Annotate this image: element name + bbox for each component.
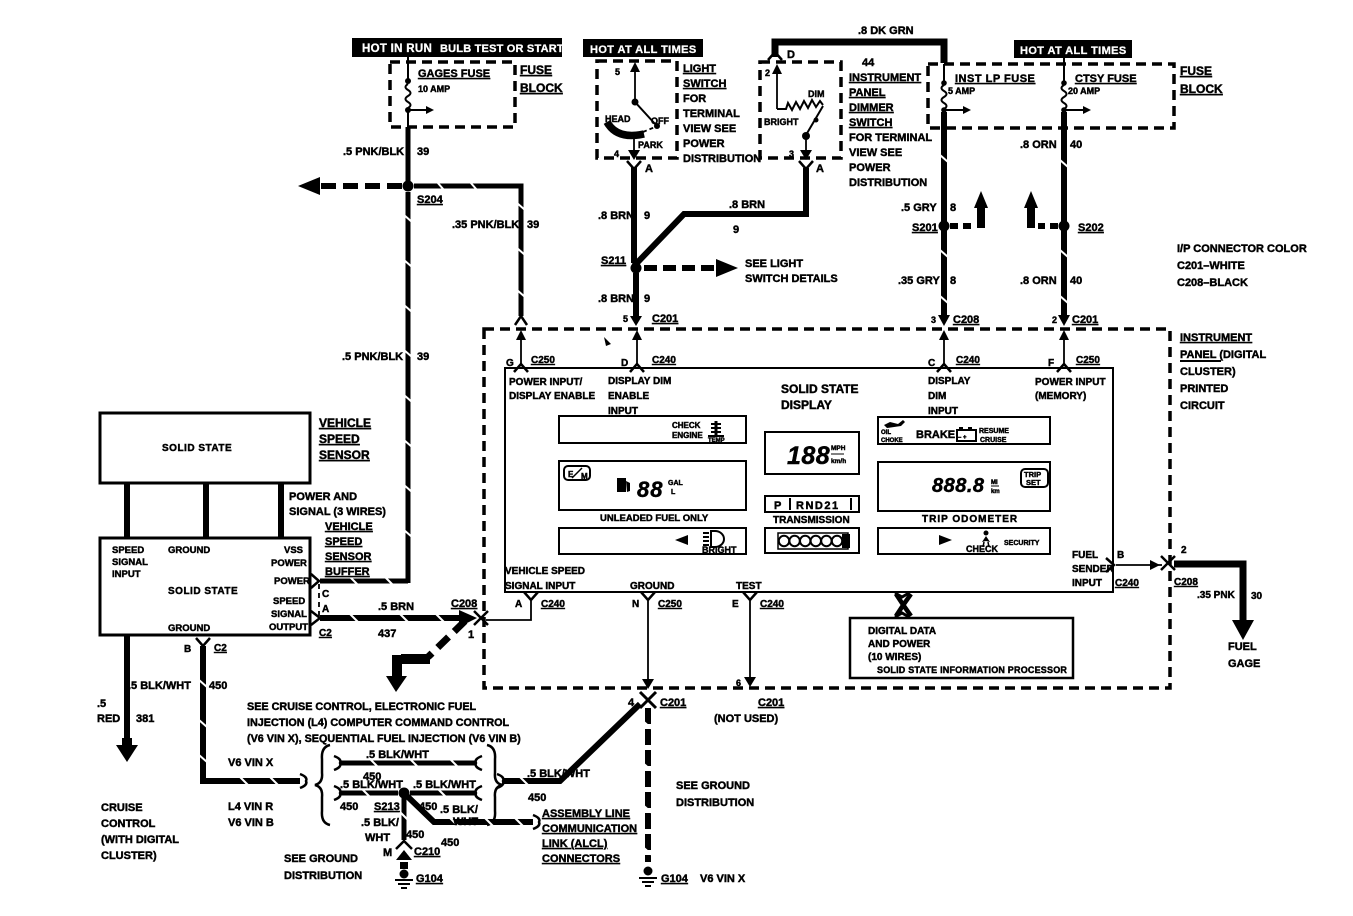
svg-text:FUEL: FUEL <box>1228 641 1257 653</box>
label VEHICLE SPEED SIGNAL INPUT <box>505 566 585 592</box>
svg-text:S204: S204 <box>417 194 444 206</box>
label TEST + terminal E C240 <box>732 581 784 610</box>
svg-text:9: 9 <box>644 210 650 222</box>
svg-text:.5 BLK/WHT: .5 BLK/WHT <box>366 749 429 761</box>
label LIGHT SWITCH FOR TERMINAL VIEW SEE POWER DISTRIBUTION <box>683 63 761 165</box>
svg-text:39: 39 <box>417 146 429 158</box>
terminal A (speed signal output) of buffer <box>311 604 332 639</box>
svg-text:GROUND: GROUND <box>168 545 210 556</box>
svg-text:.35 PNK: .35 PNK <box>1197 590 1236 601</box>
svg-text:9: 9 <box>733 224 739 236</box>
svg-text:DISTRIBUTION: DISTRIBUTION <box>849 177 927 189</box>
svg-text:RED: RED <box>97 713 120 725</box>
svg-text:C201: C201 <box>660 697 686 709</box>
svg-text:CRUISE: CRUISE <box>980 437 1007 444</box>
svg-text:POWER: POWER <box>274 576 310 587</box>
svg-text:BRIGHT: BRIGHT <box>702 545 737 555</box>
light switch internals <box>605 62 669 160</box>
svg-text:V6 VIN X: V6 VIN X <box>228 757 274 769</box>
svg-text:.8 ORN: .8 ORN <box>1020 139 1057 151</box>
splice S201 with arrow stub <box>912 191 988 234</box>
svg-text:PANEL (DIGITAL: PANEL (DIGITAL <box>1180 349 1266 361</box>
wire .5 BLK/WHT 450 (middle left of bundle) <box>334 779 403 813</box>
display cell bright with headlamp icon <box>559 528 746 555</box>
svg-text:C240: C240 <box>652 355 676 366</box>
svg-text:8: 8 <box>950 275 956 287</box>
svg-text:DIM: DIM <box>928 391 946 402</box>
svg-text:40: 40 <box>1070 139 1082 151</box>
svg-text:VEHICLE SPEED: VEHICLE SPEED <box>505 566 585 577</box>
svg-text:.5 BLK/: .5 BLK/ <box>440 804 478 816</box>
svg-text:39: 39 <box>417 351 429 363</box>
svg-text:LINK (ALCL): LINK (ALCL) <box>542 838 608 850</box>
svg-text:DISTRIBUTION: DISTRIBUTION <box>683 153 761 165</box>
svg-text:S213: S213 <box>374 801 400 813</box>
note SEE GROUND DISTRIBUTION (left) <box>284 853 362 882</box>
wire .8 BRN 9 (S211 to dimmer switch A) <box>634 168 806 266</box>
svg-text:C208: C208 <box>1174 577 1198 588</box>
label FUEL SENDER INPUT + terminal B C240 <box>1072 550 1139 589</box>
light switch dashed box <box>597 61 677 158</box>
svg-text:188: 188 <box>787 442 830 470</box>
svg-text:D: D <box>787 49 795 61</box>
svg-text:9: 9 <box>644 293 650 305</box>
wire fuel sender B to panel edge <box>1116 560 1162 570</box>
svg-text:.5 BLK/WHT: .5 BLK/WHT <box>527 768 590 780</box>
svg-text:SEE GROUND: SEE GROUND <box>284 853 358 865</box>
svg-text:V6 VIN B: V6 VIN B <box>228 817 274 829</box>
svg-text:ENGINE: ENGINE <box>672 431 703 440</box>
svg-text:DISTRIBUTION: DISTRIBUTION <box>676 797 754 809</box>
terminal 2 C201 <box>1052 314 1098 326</box>
svg-text:POWER: POWER <box>271 558 307 569</box>
label CRUISE CONTROL (WITH DIGITAL CLUSTER) <box>101 802 179 862</box>
wire .5 GRY 8 / .35 GRY 8 (INST LP fuse down to C208 pin 3) <box>898 112 956 316</box>
node 2 C208 on panel right edge <box>1161 545 1198 588</box>
terminal D of dimmer switch <box>768 49 795 61</box>
svg-text:SIGNAL (3 WIRES): SIGNAL (3 WIRES) <box>289 506 386 518</box>
svg-text:L4 VIN R: L4 VIN R <box>228 801 273 813</box>
svg-text:C201: C201 <box>652 313 678 325</box>
svg-text:C201: C201 <box>758 697 784 709</box>
display cell OIL/CHOKE BRAKE battery RESUME/CRUISE <box>878 417 1050 444</box>
svg-text:OIL: OIL <box>881 430 891 436</box>
svg-text:TRIP ODOMETER: TRIP ODOMETER <box>922 514 1018 525</box>
label POWER INPUT/DISPLAY ENABLE <box>509 377 595 402</box>
wire .5 RED 381 (buffer to cruise control) <box>97 635 154 762</box>
vehicle speed sensor box <box>100 413 310 483</box>
svg-text:BUFFER: BUFFER <box>325 566 370 578</box>
note I/P CONNECTOR COLOR <box>1177 243 1307 289</box>
svg-text:C208–BLACK: C208–BLACK <box>1177 277 1248 289</box>
svg-text:B: B <box>1117 550 1124 561</box>
svg-text:4: 4 <box>628 697 635 709</box>
svg-text:(V6 VIN X), SEQUENTIAL FUEL IN: (V6 VIN X), SEQUENTIAL FUEL INJECTION (V… <box>247 733 521 745</box>
svg-text:450: 450 <box>528 792 546 804</box>
svg-text:SECURITY: SECURITY <box>1004 540 1040 547</box>
svg-text:INJECTION (L4) COMPUTER COMMAN: INJECTION (L4) COMPUTER COMMAND CONTROL <box>247 717 510 729</box>
svg-text:SOLID STATE: SOLID STATE <box>781 382 859 396</box>
instrument panel (digital cluster) printed circuit dashed box <box>484 329 1170 688</box>
svg-text:HOT AT ALL TIMES: HOT AT ALL TIMES <box>1020 45 1127 57</box>
svg-text:FUEL: FUEL <box>1072 550 1098 561</box>
svg-text:C210: C210 <box>414 846 440 858</box>
svg-text:C250: C250 <box>1076 355 1100 366</box>
svg-text:C2: C2 <box>319 628 332 639</box>
node 6 C201 (NOT USED) <box>714 697 784 725</box>
wire ground N to C201 pin 4 <box>642 601 654 689</box>
svg-text:L: L <box>671 489 676 496</box>
svg-text:.8 BRN: .8 BRN <box>598 293 634 305</box>
svg-text:S201: S201 <box>912 222 938 234</box>
svg-text:INSTRUMENT: INSTRUMENT <box>1180 332 1252 344</box>
banner HOT AT ALL TIMES (light switch) <box>583 39 703 57</box>
svg-text:P: P <box>774 500 781 512</box>
wire .5 PNK/BLK 39 (S204 down to VSS buffer POWER) <box>320 192 429 585</box>
wire dashed arrow right from S211 (SEE LIGHT SWITCH DETAILS) <box>644 258 838 285</box>
svg-text:POWER INPUT: POWER INPUT <box>1035 377 1106 388</box>
svg-text:381: 381 <box>136 713 154 725</box>
svg-text:BLOCK: BLOCK <box>1180 82 1223 96</box>
svg-text:TEMP: TEMP <box>708 438 725 444</box>
svg-text:INSTRUMENT: INSTRUMENT <box>849 72 921 84</box>
svg-text:C201–WHITE: C201–WHITE <box>1177 260 1245 272</box>
svg-text:RESUME: RESUME <box>979 428 1009 435</box>
svg-text:INPUT: INPUT <box>1072 578 1102 589</box>
svg-text:PARK: PARK <box>638 140 663 150</box>
label FUEL GAGE <box>1228 641 1260 670</box>
svg-text:DISPLAY: DISPLAY <box>781 398 832 412</box>
wire .5 BLK/WHT 450 (middle right of bundle) <box>410 779 482 813</box>
wire dashed arrow left from S204 <box>298 177 402 195</box>
display cell trip odometer 888.8 TRIP SET <box>878 462 1050 511</box>
dimmer switch internals <box>764 64 825 160</box>
svg-text:CTSY FUSE: CTSY FUSE <box>1075 73 1137 85</box>
ground G104 (left) <box>395 862 444 888</box>
svg-text:.8 ORN: .8 ORN <box>1020 275 1057 287</box>
svg-text:VEHICLE: VEHICLE <box>325 521 373 533</box>
svg-text:3: 3 <box>789 149 794 159</box>
svg-text:S211: S211 <box>601 255 626 267</box>
svg-text:C240: C240 <box>1115 578 1139 589</box>
svg-text:4: 4 <box>614 149 619 159</box>
label VEHICLE SPEED SENSOR <box>319 416 371 462</box>
svg-text:VIEW SEE: VIEW SEE <box>849 147 902 159</box>
label SOLID STATE DISPLAY <box>781 382 859 412</box>
svg-text:GROUND: GROUND <box>630 581 674 592</box>
svg-text:DISTRIBUTION: DISTRIBUTION <box>284 870 362 882</box>
wire .8 BRN 9 (S211 down to C201 pin 5) <box>598 273 678 326</box>
svg-text:DIMMER: DIMMER <box>849 102 894 114</box>
wire test E to C201 pin 6 <box>736 601 756 688</box>
svg-text:SEE GROUND: SEE GROUND <box>676 780 750 792</box>
svg-text:VIEW SEE: VIEW SEE <box>683 123 736 135</box>
svg-text:HOT AT ALL TIMES: HOT AT ALL TIMES <box>590 44 697 56</box>
wire arrow up to pin 2 C201 inside panel <box>1059 330 1069 366</box>
svg-text:40: 40 <box>1070 275 1082 287</box>
svg-text:C240: C240 <box>760 599 784 610</box>
svg-text:SOLID STATE: SOLID STATE <box>168 586 238 597</box>
label VEHICLE SPEED SENSOR BUFFER <box>325 521 373 578</box>
display cell transmission P RND21 <box>765 496 859 512</box>
svg-text:INPUT: INPUT <box>928 406 958 417</box>
wire .5 BRN 437 (buffer A to panel node 1 C208) <box>320 598 477 641</box>
svg-text:DISPLAY DIM: DISPLAY DIM <box>608 376 671 387</box>
svg-text:.5 PNK/BLK: .5 PNK/BLK <box>342 351 403 363</box>
svg-text:10 AMP: 10 AMP <box>418 84 450 94</box>
svg-text:GROUND: GROUND <box>168 623 210 634</box>
svg-text:(NOT USED): (NOT USED) <box>714 713 779 725</box>
svg-text:CONTROL: CONTROL <box>101 818 156 830</box>
wire .35 PNK 30 to fuel gage <box>1174 564 1263 640</box>
svg-text:G104: G104 <box>416 873 444 885</box>
svg-text:AND POWER: AND POWER <box>868 639 931 650</box>
wire arrow up to pin 3 C208 inside panel <box>939 330 949 366</box>
svg-text:.5 BRN: .5 BRN <box>378 601 414 613</box>
svg-text:2: 2 <box>1052 315 1057 325</box>
svg-text:CHECK: CHECK <box>966 544 999 554</box>
svg-text:POWER INPUT/: POWER INPUT/ <box>509 377 583 388</box>
label ASSEMBLY LINE COMMUNICATION LINK (ALCL) CONNECTORS <box>542 808 637 865</box>
svg-text:.35 PNK/BLK: .35 PNK/BLK <box>452 219 519 231</box>
wire (ground distribution) C201 pin 4 down to G104 <box>644 708 652 862</box>
svg-text:5 AMP: 5 AMP <box>948 86 975 96</box>
svg-text:.8 DK GRN: .8 DK GRN <box>858 25 914 37</box>
svg-text:FOR TERMINAL: FOR TERMINAL <box>849 132 932 144</box>
svg-text:CONNECTORS: CONNECTORS <box>542 853 620 865</box>
wire arrow up to pin 5 inside panel <box>632 330 642 366</box>
svg-text:I/P CONNECTOR COLOR: I/P CONNECTOR COLOR <box>1177 243 1307 255</box>
wire .5 BLK/WHT 450 (top of bundle) <box>334 749 482 783</box>
svg-text:ASSEMBLY LINE: ASSEMBLY LINE <box>542 808 630 820</box>
svg-text:A: A <box>645 163 653 175</box>
svg-text:CLUSTER): CLUSTER) <box>101 850 157 862</box>
svg-text:450: 450 <box>406 829 424 841</box>
svg-text:WHT: WHT <box>365 832 390 844</box>
svg-text:SIGNAL: SIGNAL <box>271 609 307 620</box>
svg-text:BRIGHT: BRIGHT <box>764 117 799 127</box>
svg-text:(10 WIRES): (10 WIRES) <box>868 652 921 663</box>
svg-text:.8 BRN: .8 BRN <box>598 210 634 222</box>
svg-text:POWER: POWER <box>683 138 725 150</box>
node 4 C201 on panel bottom edge <box>628 692 686 709</box>
svg-text:TRANSMISSION: TRANSMISSION <box>773 515 850 526</box>
svg-text:CIRCUIT: CIRCUIT <box>1180 400 1225 412</box>
label GROUND + terminal N C250 <box>630 581 682 610</box>
svg-text:FOR: FOR <box>683 93 706 105</box>
svg-text:F: F <box>1048 358 1054 369</box>
svg-text:C250: C250 <box>531 355 555 366</box>
fuse CTSY FUSE 20 AMP <box>1061 58 1136 114</box>
svg-text:SENSOR: SENSOR <box>319 448 370 462</box>
svg-text:8: 8 <box>950 202 956 214</box>
svg-text:CHOKE: CHOKE <box>881 438 903 444</box>
display cell security check <box>878 528 1050 554</box>
svg-text:CHECK: CHECK <box>672 421 701 430</box>
wire .8 DK GRN (dimmer D to fuse block) <box>775 25 944 63</box>
svg-text:km/h: km/h <box>831 458 846 465</box>
svg-text:.5 BLK/: .5 BLK/ <box>361 817 399 829</box>
display cell CHECK ENGINE / TEMP <box>559 416 746 444</box>
svg-text:SET: SET <box>1026 478 1041 487</box>
small artifact mark <box>604 337 611 346</box>
svg-text:C208: C208 <box>953 314 979 326</box>
svg-text:SPEED: SPEED <box>325 536 362 548</box>
node pin 3 on panel top edge <box>515 316 527 325</box>
node 1 C208 on panel left edge <box>474 611 488 625</box>
svg-text:5: 5 <box>623 314 628 324</box>
svg-text:DIM: DIM <box>808 89 825 99</box>
svg-text:SPEED: SPEED <box>112 545 144 556</box>
svg-text:.5 BLK/WHT: .5 BLK/WHT <box>128 680 191 692</box>
svg-text:ENABLE: ENABLE <box>608 391 649 402</box>
label L4 VIN R / V6 VIN B <box>228 801 274 829</box>
svg-text:BLOCK: BLOCK <box>520 81 563 95</box>
svg-text:km: km <box>991 489 1000 495</box>
svg-text:DISPLAY ENABLE: DISPLAY ENABLE <box>509 391 595 402</box>
svg-text:437: 437 <box>378 628 396 640</box>
splice S204 <box>403 181 444 207</box>
vehicle speed sensor buffer box <box>100 538 310 635</box>
display cell fuel gauge E/M 88 GAL <box>559 461 746 510</box>
svg-text:C201: C201 <box>1072 314 1098 326</box>
dashed arrow to SEE CRUISE CONTROL <box>386 621 465 692</box>
svg-text:888.8: 888.8 <box>932 475 985 497</box>
svg-text:FUSE: FUSE <box>520 63 552 77</box>
banner HOT AT ALL TIMES (right) <box>1014 40 1132 58</box>
svg-text:C: C <box>322 589 329 600</box>
svg-text:M: M <box>383 847 392 859</box>
svg-text:VSS: VSS <box>284 545 303 556</box>
svg-text:39: 39 <box>527 219 539 231</box>
label DISPLAY DIM INPUT <box>928 376 971 417</box>
wire .5 BLK/WHT 450 (buffer B down and right) <box>128 646 306 788</box>
wire .8 BRN 9 (light switch A to S211) <box>598 167 650 263</box>
wire S204 right then down to terminal 3 (.35 PNK/BLK 39) <box>414 182 539 316</box>
svg-text:SWITCH: SWITCH <box>683 78 726 90</box>
svg-text:CRUISE: CRUISE <box>101 802 143 814</box>
svg-text:450: 450 <box>441 837 459 849</box>
svg-text:FUSE: FUSE <box>1180 64 1212 78</box>
svg-text:SIGNAL INPUT: SIGNAL INPUT <box>505 581 575 592</box>
svg-text:PANEL: PANEL <box>849 87 886 99</box>
svg-text:GAGES FUSE: GAGES FUSE <box>418 68 490 80</box>
svg-text:SOLID STATE INFORMATION PROCES: SOLID STATE INFORMATION PROCESSOR <box>877 665 1067 675</box>
svg-text:MI: MI <box>991 480 998 486</box>
svg-text:C2: C2 <box>214 643 227 654</box>
terminal F C250 <box>1048 355 1100 372</box>
svg-text:2: 2 <box>765 68 770 78</box>
brace left { <box>315 745 330 825</box>
svg-text:.5 BLK/WHT: .5 BLK/WHT <box>340 779 403 791</box>
svg-text:C240: C240 <box>956 355 980 366</box>
svg-text:WHT: WHT <box>453 816 478 828</box>
splice S202 with arrow stub <box>1024 191 1104 234</box>
splice S211 <box>601 255 642 274</box>
wire .8 ORN 40 (CTSY fuse down to C201 pin 2) <box>1020 112 1082 316</box>
svg-text:C250: C250 <box>658 599 682 610</box>
terminal B C2 of buffer <box>184 638 227 655</box>
svg-text:M: M <box>581 472 588 481</box>
svg-text:RND21: RND21 <box>796 500 840 512</box>
connector M C210 <box>383 841 440 860</box>
svg-text:LIGHT: LIGHT <box>683 63 716 75</box>
svg-text:V6 VIN X: V6 VIN X <box>700 873 746 885</box>
svg-text:A: A <box>322 604 329 615</box>
svg-text:DISPLAY: DISPLAY <box>928 376 971 387</box>
svg-text:OUTPUT: OUTPUT <box>269 622 308 633</box>
svg-text:HOT IN RUN: HOT IN RUN <box>362 43 432 55</box>
svg-text:SPEED: SPEED <box>273 596 305 607</box>
solid state display inner box <box>505 368 1113 592</box>
svg-text:UNLEADED FUEL ONLY: UNLEADED FUEL ONLY <box>600 513 709 524</box>
wire .5 PNK/BLK 39 (fuse to S204) <box>343 127 429 183</box>
wire from A C240 to panel edge node <box>486 601 531 620</box>
display cell speedometer 188 MPH km/h <box>765 432 859 474</box>
svg-text:COMMUNICATION: COMMUNICATION <box>542 823 637 835</box>
svg-text:44: 44 <box>862 57 875 69</box>
solid state information processor box <box>850 618 1073 678</box>
svg-text:30: 30 <box>1251 591 1263 602</box>
svg-text:3: 3 <box>931 315 936 325</box>
svg-text:(WITH DIGITAL: (WITH DIGITAL <box>101 834 179 846</box>
svg-text:SENSOR: SENSOR <box>325 551 372 563</box>
bundle connector X between display and processor <box>895 593 911 617</box>
ground G104 (right) <box>639 867 689 887</box>
banner HOT IN RUN / BULB TEST OR START <box>352 38 564 57</box>
svg-text:BULB TEST OR START: BULB TEST OR START <box>440 43 564 55</box>
svg-text:MPH: MPH <box>831 445 846 452</box>
label 44 INSTRUMENT PANEL DIMMER SWITCH <box>849 57 932 189</box>
svg-text:SEE CRUISE CONTROL, ELECTRONIC: SEE CRUISE CONTROL, ELECTRONIC FUEL <box>247 701 477 713</box>
terminal D C240 <box>621 355 676 372</box>
svg-text:1: 1 <box>468 629 474 641</box>
svg-text:20 AMP: 20 AMP <box>1068 86 1100 96</box>
svg-text:G: G <box>506 358 514 369</box>
svg-text:SPEED: SPEED <box>319 432 360 446</box>
instrument panel dimmer switch dashed box <box>760 62 841 158</box>
brace right } <box>487 745 502 825</box>
terminal G C250 <box>506 355 555 372</box>
svg-text:.5 BLK/WHT: .5 BLK/WHT <box>413 779 476 791</box>
svg-text:A: A <box>515 599 522 610</box>
svg-text:SOLID STATE: SOLID STATE <box>162 443 232 454</box>
svg-text:E: E <box>732 599 739 610</box>
terminal A C240 on display box <box>515 592 565 610</box>
label DISPLAY DIM ENABLE INPUT <box>608 376 671 417</box>
splice S213 <box>374 788 410 814</box>
terminal A of dimmer switch <box>799 161 824 175</box>
wire .5 BLK/WHT 450 (S213 to ALCL) <box>407 796 539 849</box>
note SEE GROUND DISTRIBUTION (right) <box>676 780 754 809</box>
svg-text:450: 450 <box>209 680 227 692</box>
svg-text:2: 2 <box>1181 545 1187 556</box>
svg-text:INPUT: INPUT <box>112 569 141 580</box>
fuse block (right) dashed outline <box>928 64 1174 128</box>
svg-text:BRAKE: BRAKE <box>916 429 955 441</box>
fuse GAGES FUSE 10 AMP <box>405 57 490 127</box>
svg-text:S202: S202 <box>1078 222 1104 234</box>
svg-text:C208: C208 <box>451 598 477 610</box>
svg-text:.5 PNK/BLK: .5 PNK/BLK <box>343 146 404 158</box>
svg-text:VEHICLE: VEHICLE <box>319 416 371 430</box>
svg-text:5: 5 <box>615 67 620 77</box>
svg-text:.5: .5 <box>97 698 106 710</box>
label POWER AND SIGNAL (3 WIRES) <box>289 491 386 518</box>
label INSTRUMENT PANEL (DIGITAL CLUSTER) PRINTED CIRCUIT <box>1180 332 1266 412</box>
terminal 3 C208 <box>931 314 979 326</box>
wire .5 BLK/WHT 450 (bundle to C201 pin 4) <box>497 704 640 804</box>
